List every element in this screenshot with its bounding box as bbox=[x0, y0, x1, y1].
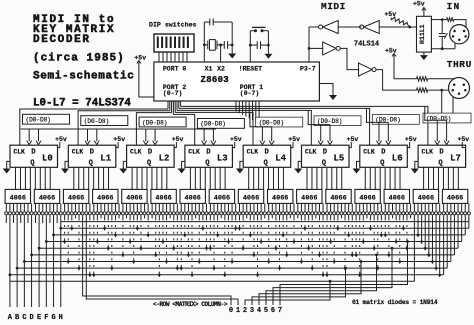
svg-text:Q: Q bbox=[30, 159, 35, 167]
svg-text:4066: 4066 bbox=[155, 195, 171, 203]
svg-text:Z8603: Z8603 bbox=[201, 75, 230, 85]
svg-text:L7: L7 bbox=[450, 154, 461, 164]
svg-text:D: D bbox=[381, 149, 386, 157]
svg-text:(D0-D8): (D0-D8) bbox=[84, 118, 109, 125]
svg-text:CLK: CLK bbox=[422, 149, 434, 156]
svg-text:P3-7: P3-7 bbox=[300, 65, 316, 72]
svg-text:4066: 4066 bbox=[185, 195, 201, 203]
svg-text:(0-7): (0-7) bbox=[240, 90, 260, 97]
svg-text:+5v: +5v bbox=[405, 136, 417, 143]
svg-text:(D0-D8): (D0-D8) bbox=[200, 121, 225, 128]
svg-text:Q: Q bbox=[205, 159, 210, 167]
svg-text:D: D bbox=[90, 149, 95, 157]
svg-text:CLK: CLK bbox=[305, 149, 317, 156]
svg-text:E: E bbox=[37, 314, 41, 322]
svg-text:(D0-D8): (D0-D8) bbox=[142, 119, 167, 126]
svg-text:4066: 4066 bbox=[301, 195, 317, 203]
svg-text:L0-L7 = 74LS374: L0-L7 = 74LS374 bbox=[33, 98, 131, 110]
svg-text:D: D bbox=[323, 149, 328, 157]
svg-text:+5v: +5v bbox=[288, 136, 300, 143]
svg-text:H: H bbox=[59, 314, 63, 322]
svg-text:D: D bbox=[29, 314, 33, 322]
svg-text:Q: Q bbox=[380, 159, 385, 167]
svg-text:H11L1: H11L1 bbox=[419, 24, 426, 44]
svg-text:0: 0 bbox=[229, 307, 233, 315]
svg-text:IN: IN bbox=[447, 1, 461, 12]
svg-text:(D0-D8): (D0-D8) bbox=[259, 119, 284, 126]
svg-text:DIP switches: DIP switches bbox=[149, 22, 197, 29]
svg-text:L3: L3 bbox=[217, 154, 228, 164]
svg-text:Q: Q bbox=[438, 159, 443, 167]
svg-text:4066: 4066 bbox=[68, 195, 84, 203]
svg-text:4066: 4066 bbox=[97, 195, 113, 203]
svg-text:2: 2 bbox=[243, 307, 247, 315]
svg-text:4066: 4066 bbox=[214, 195, 230, 203]
svg-text:L2: L2 bbox=[159, 154, 170, 164]
svg-text:4066: 4066 bbox=[272, 195, 288, 203]
svg-text:+5v: +5v bbox=[172, 136, 184, 143]
svg-text:+5v: +5v bbox=[55, 136, 67, 143]
svg-text:1: 1 bbox=[236, 307, 240, 315]
svg-text:(D0-D8): (D0-D8) bbox=[26, 117, 51, 124]
svg-text:4066: 4066 bbox=[389, 195, 405, 203]
svg-text:D: D bbox=[439, 149, 444, 157]
svg-text:4066: 4066 bbox=[359, 195, 375, 203]
svg-text:(circa 1985): (circa 1985) bbox=[33, 53, 125, 65]
svg-text:L4: L4 bbox=[275, 154, 286, 164]
svg-text:MIDI: MIDI bbox=[321, 1, 346, 12]
svg-text:G: G bbox=[51, 314, 55, 322]
svg-text:5: 5 bbox=[264, 307, 268, 315]
svg-text:L5: L5 bbox=[334, 154, 345, 164]
svg-text:61 matrix diodes = 1N914: 61 matrix diodes = 1N914 bbox=[352, 299, 438, 306]
svg-text:+5v: +5v bbox=[347, 136, 359, 143]
svg-text:DECODER: DECODER bbox=[33, 34, 91, 46]
svg-text:6: 6 bbox=[271, 307, 275, 315]
svg-text:CLK: CLK bbox=[13, 149, 25, 156]
svg-text:+5v: +5v bbox=[230, 136, 242, 143]
svg-text:4066: 4066 bbox=[418, 195, 434, 203]
svg-text:X1: X1 bbox=[205, 65, 213, 72]
svg-text:D: D bbox=[206, 149, 211, 157]
svg-text:74LS14: 74LS14 bbox=[354, 40, 379, 48]
svg-text:Semi-schematic: Semi-schematic bbox=[33, 71, 135, 83]
svg-text:4066: 4066 bbox=[10, 195, 26, 203]
svg-text:4066: 4066 bbox=[330, 195, 346, 203]
svg-text:+5v: +5v bbox=[134, 54, 146, 61]
svg-text:CLK: CLK bbox=[130, 149, 142, 156]
svg-text:4066: 4066 bbox=[243, 195, 259, 203]
svg-text:4066: 4066 bbox=[39, 195, 55, 203]
svg-text:3: 3 bbox=[250, 307, 254, 315]
svg-text:+5v: +5v bbox=[413, 1, 425, 8]
svg-text:CLK: CLK bbox=[188, 149, 200, 156]
svg-text:CLK: CLK bbox=[247, 149, 259, 156]
svg-text:Q: Q bbox=[89, 159, 94, 167]
svg-text:PORT 0: PORT 0 bbox=[163, 65, 187, 72]
svg-text:X2: X2 bbox=[217, 65, 225, 72]
svg-text:+5v: +5v bbox=[113, 136, 125, 143]
svg-text:4066: 4066 bbox=[447, 195, 463, 203]
svg-text:Q: Q bbox=[264, 159, 269, 167]
svg-text:D: D bbox=[31, 149, 36, 157]
svg-text:L1: L1 bbox=[100, 154, 111, 164]
svg-text:L6: L6 bbox=[392, 154, 403, 164]
svg-text:+5v: +5v bbox=[385, 47, 397, 54]
svg-text:(D0-D8): (D0-D8) bbox=[317, 118, 342, 125]
svg-text:Q: Q bbox=[147, 159, 152, 167]
svg-text:4: 4 bbox=[257, 307, 261, 315]
svg-text:THRU: THRU bbox=[447, 59, 472, 70]
svg-text:D: D bbox=[265, 149, 270, 157]
svg-text:!RESET: !RESET bbox=[239, 65, 263, 72]
svg-text:<-ROW <MATRIX> COLUMN->: <-ROW <MATRIX> COLUMN-> bbox=[153, 301, 228, 308]
svg-text:F: F bbox=[44, 314, 48, 322]
svg-text:(0-7): (0-7) bbox=[163, 90, 183, 97]
svg-text:CLK: CLK bbox=[363, 149, 375, 156]
svg-text:+5v: +5v bbox=[458, 136, 470, 143]
svg-text:C: C bbox=[22, 314, 26, 322]
svg-text:7: 7 bbox=[278, 307, 282, 315]
svg-text:L0: L0 bbox=[42, 154, 53, 164]
svg-text:(D0-D5): (D0-D5) bbox=[426, 115, 451, 122]
svg-text:CLK: CLK bbox=[72, 149, 84, 156]
svg-text:4066: 4066 bbox=[126, 195, 142, 203]
svg-text:D: D bbox=[148, 149, 153, 157]
svg-text:Q: Q bbox=[322, 159, 327, 167]
